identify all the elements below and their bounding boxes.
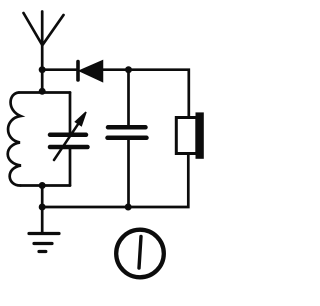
node E: ground rail junction: [39, 204, 46, 211]
diode D1: [78, 61, 103, 82]
circled figure number 1: [116, 230, 164, 278]
antenna: [24, 12, 64, 70]
wire: tank loop bottom: [21, 184, 71, 187]
node F: capacitor C2 / bottom rail junction: [125, 204, 132, 211]
node A: antenna / diode junction: [39, 66, 46, 73]
wire: junction A to diode cathode: [42, 68, 76, 71]
wire: variable capacitor branch (right side of tank loop): [69, 93, 72, 186]
node C: tank circuit top junction: [39, 88, 46, 95]
wire: diode anode to node B: [103, 68, 129, 71]
earphone (headphone): [176, 112, 204, 158]
node B: diode / capacitor C2 junction: [125, 66, 132, 73]
wire: earphone bottom to bottom-right corner and along bottom rail: [42, 154, 188, 208]
wire: node B to top-right corner and down to earphone: [129, 70, 189, 118]
wire: tank bottom down to ground rail: [41, 186, 44, 208]
inductor L1 (coil, 4 turns): [8, 93, 21, 186]
wire: tank loop top: [19, 91, 70, 94]
wire: vertical feed from node A down to tank top: [41, 70, 44, 93]
node D: tank circuit bottom junction: [39, 182, 46, 189]
ground: [29, 207, 59, 252]
capacitor C2 (fixed): [108, 70, 147, 207]
variable capacitor C1: [50, 112, 88, 160]
